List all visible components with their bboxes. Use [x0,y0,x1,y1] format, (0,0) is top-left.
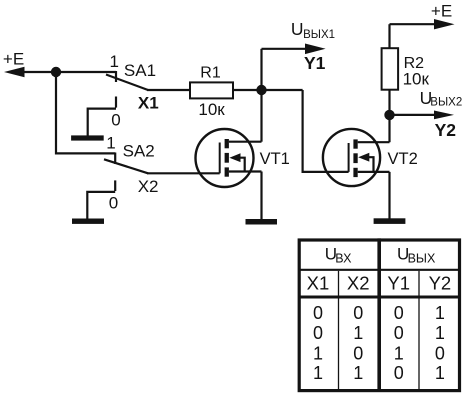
wire R1 to node Y1 [233,89,303,91]
svg-text:Y2: Y2 [435,120,457,140]
table data row 1 [313,303,445,323]
svg-text:U: U [291,19,304,39]
svg-text:1: 1 [435,323,445,343]
svg-text:1: 1 [435,303,445,323]
svg-text:1: 1 [353,323,363,343]
switch SA1 [106,71,148,90]
svg-text:VT1: VT1 [260,150,290,168]
svg-text:10к: 10к [403,69,430,88]
svg-text:VT2: VT2 [388,150,418,168]
svg-text:0: 0 [313,303,323,323]
svg-text:0: 0 [353,343,363,363]
svg-text:1: 1 [110,52,119,71]
svg-text:Y1: Y1 [387,272,410,293]
svg-text:1: 1 [394,343,404,363]
svg-text:ВЫХ: ВЫХ [408,251,436,265]
svg-text:Y2: Y2 [429,272,452,293]
table data row 2 [313,323,445,343]
table data row 4 [313,363,445,383]
node Uvyx2 output arrow [390,111,455,120]
node Uvyx1 output arrow [262,44,326,55]
svg-text:10к: 10к [198,100,225,119]
svg-text:X2: X2 [347,272,370,293]
truth table frame [299,238,459,390]
svg-text:+E: +E [3,50,24,69]
resistor R1 [190,82,233,98]
svg-text:1: 1 [313,363,323,383]
label Uvyx1 [291,19,335,41]
wire junction to SA2 contact 1 [56,72,115,153]
svg-text:1: 1 [313,343,323,363]
svg-text:+E: +E [431,2,452,21]
transistor VT1 [196,129,262,187]
node +E right arrow [390,19,455,29]
node junction dot left [51,67,61,77]
svg-text:0: 0 [394,363,404,383]
svg-text:X2: X2 [138,177,159,196]
label Uvyx2 [420,88,463,109]
wire +E to R2 [388,24,390,48]
ground (VT1) [246,219,278,225]
resistor R2 [382,48,399,89]
ground (SA2) [72,219,104,224]
svg-text:X1: X1 [138,93,159,112]
wire SA2 to VT1 gate [147,172,220,174]
wire +E rail [20,71,116,73]
node +E left arrow [4,67,25,78]
wire SA2 contact 0 [87,180,115,219]
svg-text:1: 1 [353,363,363,383]
svg-text:0: 0 [394,303,404,323]
wire VT1 source to ground [260,172,262,220]
svg-text:SA2: SA2 [123,142,155,161]
wire node Y1 to VT2 gate [303,90,349,172]
svg-text:0: 0 [394,323,404,343]
svg-text:1: 1 [106,134,115,153]
svg-text:SA1: SA1 [124,61,156,80]
node Y1 junction dot [256,85,266,95]
transistor VT2 [323,129,390,186]
svg-text:ВЫХ1: ВЫХ1 [303,29,335,41]
svg-text:0: 0 [109,193,118,212]
svg-text:X1: X1 [307,272,330,293]
wire VT1 drain to node Y1 [260,90,262,142]
wire R2 to node Y2 [388,90,390,115]
svg-text:R1: R1 [200,65,221,82]
wire VT2 source to ground [388,172,390,219]
node Y2 junction dot [384,110,394,120]
ground (VT2) [374,218,406,224]
svg-text:0: 0 [435,343,445,363]
switch SA2 [104,153,148,174]
svg-text:0: 0 [111,111,120,130]
svg-text:ВХ: ВХ [335,251,352,265]
table data row 3 [313,343,445,363]
table header Uvyx [397,244,436,265]
wire SA1 contact 0 [88,97,116,137]
table header Uvx [325,244,352,265]
svg-text:0: 0 [313,323,323,343]
wire VT2 drain to node Y2 [388,115,390,142]
svg-text:Y1: Y1 [304,53,326,73]
ground (SA1) [71,135,104,140]
svg-text:0: 0 [353,303,363,323]
wire SA1 to R1 [147,89,190,91]
svg-text:ВЫХ2: ВЫХ2 [430,97,462,109]
wire node Y1 up to output arrow [260,49,262,90]
svg-text:1: 1 [435,363,445,383]
